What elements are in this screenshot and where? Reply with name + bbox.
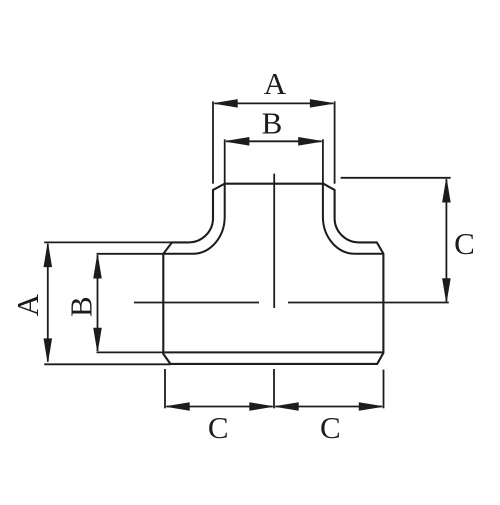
svg-text:C: C (208, 410, 229, 445)
svg-text:C: C (320, 410, 341, 445)
svg-text:B: B (64, 296, 99, 317)
svg-text:A: A (10, 293, 45, 316)
svg-text:A: A (264, 66, 287, 101)
svg-text:B: B (262, 106, 283, 141)
svg-text:C: C (454, 226, 475, 261)
